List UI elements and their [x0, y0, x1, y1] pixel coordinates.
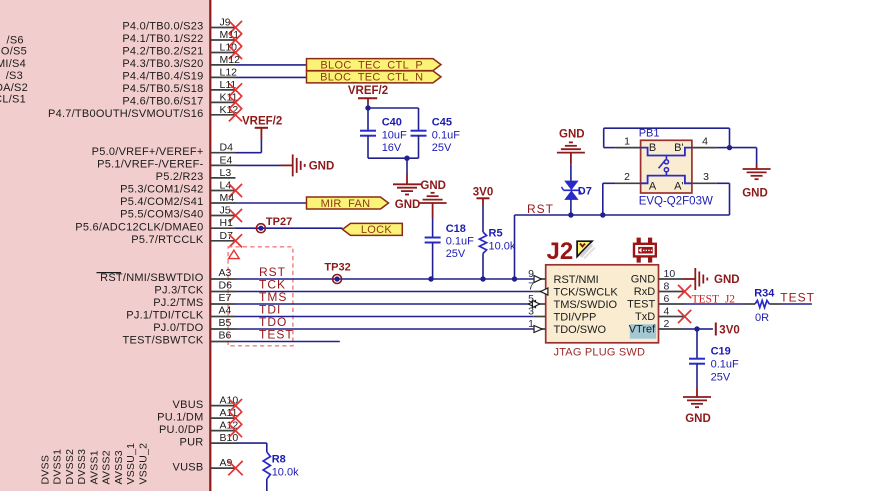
wire PB1 pin4 to GND — [717, 147, 730, 149]
svg-text:D4: D4 — [220, 142, 234, 154]
svg-text:P5.3/COM1/S42: P5.3/COM1/S42 — [120, 184, 203, 196]
svg-text:RxD: RxD — [634, 286, 655, 298]
svg-text:8: 8 — [664, 280, 670, 292]
ground symbol at E4 — [281, 164, 293, 166]
pin A10 stub — [210, 405, 235, 407]
svg-text:P5.5/COM3/S40: P5.5/COM3/S40 — [120, 209, 203, 221]
svg-text:P5.6/ADC12CLK/DMAE0: P5.6/ADC12CLK/DMAE0 — [75, 221, 203, 233]
svg-text:3V0: 3V0 — [719, 324, 739, 336]
svg-text:BLOC_TEC_CTL_P: BLOC_TEC_CTL_P — [320, 59, 423, 71]
pin A9 stub — [210, 467, 235, 469]
pin A4 stub (TDI) — [210, 316, 235, 318]
connector footprint icon — [637, 238, 641, 244]
no-connect X — [229, 412, 242, 425]
J2 pin 7 arrow — [541, 288, 548, 295]
svg-text:TCK/SWCLK: TCK/SWCLK — [554, 286, 619, 298]
svg-text:E7: E7 — [219, 292, 232, 304]
VTref highlight — [630, 324, 656, 339]
wire D7 to RST net — [570, 199, 572, 215]
svg-text:4: 4 — [664, 305, 670, 317]
svg-text:RST: RST — [527, 202, 554, 216]
svg-text:0R: 0R — [755, 312, 769, 324]
svg-text:10.0k: 10.0k — [272, 467, 299, 479]
svg-text:VSSU_2: VSSU_2 — [137, 443, 149, 485]
svg-text:A': A' — [674, 181, 683, 193]
pin L10 P4.2 stub — [210, 52, 235, 54]
wire H1 to LOCK flag — [236, 227, 343, 229]
svg-text:4: 4 — [702, 136, 708, 148]
resistor R5 — [482, 205, 484, 232]
svg-text:P5.2/R23: P5.2/R23 — [156, 171, 204, 183]
wire M4 to MIR_FAN — [236, 202, 307, 204]
no-connect X — [229, 399, 242, 412]
wire PB1 pin1 loop — [604, 147, 616, 149]
svg-text:A: A — [649, 181, 657, 193]
svg-text:L12: L12 — [220, 66, 238, 78]
J2 right pin 8 RxD — [659, 291, 684, 293]
svg-text:A3: A3 — [219, 267, 232, 279]
edit pencil icon — [577, 241, 592, 256]
wire E4 to GND — [236, 164, 281, 166]
J2 left pin 9 RST/NMI — [533, 278, 546, 280]
pin E4 P5.1 stub — [210, 164, 235, 166]
wire VREF/2 to caps — [367, 103, 369, 108]
svg-text:TEST: TEST — [780, 290, 815, 304]
pin J9 P4.0 stub — [210, 27, 235, 29]
resistor R8 — [263, 452, 270, 479]
pin B5 stub (TDO) — [210, 328, 235, 330]
pin J5 P5.5 stub — [210, 215, 235, 217]
svg-text:C18: C18 — [446, 223, 466, 235]
svg-text:J5: J5 — [220, 205, 231, 217]
svg-text:TEST: TEST — [627, 299, 655, 311]
power flag 3V0 at VTref — [715, 323, 717, 336]
IC U1 MSP430 body (partial, right edge) — [0, 0, 210, 491]
svg-text:J2: J2 — [547, 238, 574, 265]
svg-text:TxD: TxD — [635, 311, 655, 323]
capacitor C40 — [367, 108, 369, 131]
error triangle marker — [229, 250, 240, 258]
power flag VREF/2 at D4 — [236, 152, 262, 154]
svg-text:LOCK: LOCK — [361, 224, 393, 236]
svg-text:TEST/SBWTCK: TEST/SBWTCK — [123, 335, 204, 347]
J2 pin 5 double arrow — [528, 301, 535, 308]
svg-text:P5.1/VREF-/VEREF-: P5.1/VREF-/VEREF- — [97, 159, 203, 171]
svg-text:PJ.2/TMS: PJ.2/TMS — [153, 297, 203, 309]
pin D7 P5.7 stub — [210, 240, 235, 242]
wire P4.3 to BLOC_TEC_CTL_P — [236, 64, 307, 66]
svg-text:AVSS3: AVSS3 — [113, 450, 125, 484]
svg-text:P4.7/TB0OUTH/SVMOUT/S16: P4.7/TB0OUTH/SVMOUT/S16 — [48, 108, 204, 120]
svg-text:P4.0/TB0.0/S23: P4.0/TB0.0/S23 — [122, 21, 203, 33]
ground at J2 pin 10 — [684, 278, 696, 280]
svg-text:B': B' — [674, 142, 683, 154]
svg-text:0.1uF: 0.1uF — [446, 236, 474, 248]
svg-text:P4.1/TB0.1/S22: P4.1/TB0.1/S22 — [122, 33, 203, 45]
no-connect X on pin L11 — [229, 83, 242, 96]
svg-text:TMS/SWDIO: TMS/SWDIO — [554, 299, 618, 311]
svg-text:PJ.3/TCK: PJ.3/TCK — [154, 285, 203, 297]
net flag BLOC_TEC_CTL_P — [307, 59, 442, 71]
svg-text:TDO/SWO: TDO/SWO — [554, 324, 607, 336]
wire TDI row to J2 pin 3 — [236, 316, 534, 318]
svg-text:GND: GND — [559, 128, 585, 140]
svg-text:D7: D7 — [578, 185, 592, 197]
no-connect X on TxD — [678, 310, 691, 323]
svg-text:J9: J9 — [220, 17, 231, 29]
svg-text:/S3: /S3 — [6, 70, 23, 82]
svg-text:C40: C40 — [382, 117, 402, 129]
net flag LOCK — [343, 223, 403, 235]
no-connect X on pin M11 — [229, 33, 242, 46]
svg-text:P5.0/VREF+/VEREF+: P5.0/VREF+/VEREF+ — [92, 146, 204, 158]
svg-text:VBUS: VBUS — [173, 399, 204, 411]
svg-text:AVSS2: AVSS2 — [101, 450, 113, 484]
svg-text:P4.4/TB0.4/S19: P4.4/TB0.4/S19 — [122, 71, 203, 83]
svg-text:VUSB: VUSB — [173, 461, 204, 473]
svg-text:DVSS2: DVSS2 — [64, 449, 76, 485]
svg-text:GND: GND — [742, 188, 768, 200]
J2 left pin 3 TDI/VPP — [533, 316, 546, 318]
svg-text:B5: B5 — [219, 317, 232, 329]
svg-text:P5.7/RTCCLK: P5.7/RTCCLK — [131, 234, 204, 246]
svg-text:M4: M4 — [220, 192, 235, 204]
pin E7 stub (TMS) — [210, 303, 235, 305]
PB1 pin 1 stub — [616, 147, 641, 149]
svg-text:2: 2 — [624, 171, 630, 183]
dashed highlight box around JTAG nets — [228, 247, 293, 346]
svg-text:H1: H1 — [220, 217, 234, 229]
svg-text:B: B — [649, 142, 656, 154]
capacitor C45 — [418, 108, 420, 131]
wire TCK row to J2 pin 7 — [236, 291, 534, 293]
PB1 pin 2 stub — [616, 182, 641, 184]
no-connect X on pin J9 — [229, 21, 242, 34]
svg-text:P4.3/TB0.3/S20: P4.3/TB0.3/S20 — [122, 58, 203, 70]
svg-text:MIR_FAN: MIR_FAN — [321, 198, 371, 210]
svg-text:6: 6 — [664, 293, 670, 305]
ground at PB1 pin4 — [756, 164, 758, 169]
no-connect X on RxD — [678, 285, 691, 298]
svg-text:JTAG PLUG SWD: JTAG PLUG SWD — [554, 346, 646, 358]
svg-text:R34: R34 — [754, 287, 775, 299]
pin M12 P4.3 stub — [210, 64, 235, 66]
svg-text:TDI/VPP: TDI/VPP — [554, 311, 597, 323]
PB1 pin 4 stub — [692, 147, 717, 149]
svg-text:10uF: 10uF — [382, 130, 407, 142]
svg-text:PU.1/DM: PU.1/DM — [157, 411, 203, 423]
svg-text:VREF/2: VREF/2 — [348, 85, 388, 97]
svg-text:3: 3 — [703, 171, 709, 183]
wire TMS row to J2 pin 5 — [236, 303, 534, 305]
wire RST riser — [514, 215, 516, 279]
pin A3 stub (RST) — [210, 278, 235, 280]
J2 left pin 7 TCK/SWCLK — [533, 291, 546, 293]
svg-text:25V: 25V — [711, 371, 731, 383]
svg-text:C19: C19 — [711, 345, 731, 357]
pin A12 stub — [210, 430, 235, 432]
svg-text:AVSS1: AVSS1 — [88, 450, 100, 484]
svg-text:1: 1 — [624, 136, 630, 148]
svg-text:2: 2 — [664, 318, 670, 330]
svg-text:BLOC_TEC_CTL_N: BLOC_TEC_CTL_N — [320, 72, 423, 84]
svg-text:GND: GND — [420, 180, 446, 192]
svg-text:O/S5: O/S5 — [1, 46, 27, 58]
svg-text:25V: 25V — [432, 142, 452, 154]
J2 pin 1 arrow — [534, 326, 542, 333]
svg-text:EVQ-Q2F03W: EVQ-Q2F03W — [639, 196, 713, 208]
svg-text:DA/S2: DA/S2 — [0, 82, 28, 94]
svg-text:PJ.0/TDO: PJ.0/TDO — [153, 322, 203, 334]
no-connect X on A9 — [228, 461, 242, 475]
capacitor C19 — [696, 329, 698, 359]
svg-text:GND: GND — [714, 274, 740, 286]
wire bottom rail — [368, 157, 419, 159]
J2 right pin 4 TxD — [659, 316, 684, 318]
svg-text:B6: B6 — [219, 330, 232, 342]
test point TP32 on RST net — [333, 275, 342, 284]
pin H1 P5.6 stub — [210, 227, 235, 229]
no-connect X — [229, 424, 242, 437]
svg-text:0.1uF: 0.1uF — [711, 358, 739, 370]
svg-text:P4.5/TB0.5/S18: P4.5/TB0.5/S18 — [122, 83, 203, 95]
svg-text:0.1uF: 0.1uF — [432, 130, 460, 142]
svg-text:P4.6/TB0.6/S17: P4.6/TB0.6/S17 — [122, 96, 203, 108]
svg-text:10: 10 — [664, 268, 676, 280]
TVS diode D7 — [565, 181, 577, 189]
svg-text:10.0k: 10.0k — [489, 241, 516, 253]
pin L12 P4.4 stub — [210, 76, 235, 78]
pin L11 P4.5 stub — [210, 89, 235, 91]
pin D4 P5.0 stub — [210, 152, 235, 154]
ground symbol for C40/C45 — [406, 158, 408, 173]
svg-text:PJ.1/TDI/TCLK: PJ.1/TDI/TCLK — [126, 310, 204, 322]
svg-text:VTref: VTref — [629, 324, 656, 336]
svg-text:CL/S1: CL/S1 — [0, 94, 26, 106]
net flag MIR_FAN — [307, 197, 389, 209]
svg-text:GND: GND — [395, 199, 421, 211]
wire RST row to J2 pin 9 — [236, 278, 534, 280]
test point TP27 — [256, 224, 265, 233]
J2 left pin 1 TDO/SWO — [533, 328, 546, 330]
J2 right pin 2 VTref — [659, 328, 684, 330]
svg-text:GND: GND — [309, 161, 335, 173]
svg-text:3V0: 3V0 — [473, 187, 493, 199]
node: top rail junction — [368, 107, 419, 109]
pin M4 P5.4 stub — [210, 202, 235, 204]
svg-text:E4: E4 — [220, 154, 233, 166]
pin A11 stub — [210, 417, 235, 419]
svg-text:P5.4/COM2/S41: P5.4/COM2/S41 — [120, 196, 203, 208]
svg-text:MI/S4: MI/S4 — [0, 58, 26, 70]
PB1 switch symbol — [641, 148, 692, 156]
svg-text:GND: GND — [631, 274, 656, 286]
svg-text:/S6: /S6 — [7, 34, 24, 46]
PB1 pin 3 stub — [692, 182, 717, 184]
svg-text:DVSS3: DVSS3 — [76, 449, 88, 485]
wire VTref to 3V0 and C19 — [684, 328, 698, 330]
svg-text:R5: R5 — [489, 228, 503, 240]
svg-text:DVSS1: DVSS1 — [52, 449, 64, 485]
pin K11 P4.6 stub — [210, 101, 235, 103]
svg-text:L3: L3 — [220, 167, 232, 179]
svg-text:PU.0/DP: PU.0/DP — [159, 424, 204, 436]
ground below C19 — [696, 388, 698, 397]
svg-text:C45: C45 — [432, 117, 452, 129]
svg-text:9: 9 — [528, 268, 534, 280]
svg-text:PB1: PB1 — [639, 128, 660, 140]
wire P4.4 to BLOC_TEC_CTL_N — [236, 76, 307, 78]
svg-text:16V: 16V — [382, 142, 402, 154]
resistor R34 on TEST net — [684, 303, 744, 305]
J2 pin 9 arrow — [534, 276, 541, 283]
svg-text:D6: D6 — [219, 280, 233, 292]
pin L4 P5.3 stub — [210, 190, 235, 192]
svg-text:1: 1 — [528, 318, 534, 330]
wire RST to PB1 pin 2 — [571, 214, 603, 216]
pin L3 P5.2 stub — [210, 177, 235, 179]
pin M11 P4.1 stub — [210, 39, 235, 41]
svg-text:7: 7 — [528, 280, 534, 292]
no-connect X on pin K11 — [229, 96, 242, 109]
svg-text:TP32: TP32 — [324, 262, 350, 274]
pushbutton PB1 EVQ-Q2F03W — [641, 140, 692, 193]
capacitor C18 — [425, 237, 441, 239]
J2 left pin 5 TMS/SWDIO — [533, 303, 546, 305]
svg-text:VREF/2: VREF/2 — [242, 116, 282, 128]
pin K12 P4.7 stub — [210, 114, 235, 116]
wire TEST stub (open) — [236, 341, 340, 343]
pin D6 stub (TCK) — [210, 291, 235, 293]
connector J2 body JTAG PLUG SWD — [546, 265, 659, 343]
svg-text:RST/NMI/SBWTDIO: RST/NMI/SBWTDIO — [100, 272, 204, 284]
svg-text:P4.2/TB0.2/S21: P4.2/TB0.2/S21 — [122, 46, 203, 58]
svg-text:DVSS: DVSS — [39, 455, 51, 485]
wire TDO row to J2 pin 1 — [236, 328, 534, 330]
J2 right pin 10 GND — [659, 278, 684, 280]
pin B10 stub — [210, 442, 235, 444]
svg-text:GND: GND — [685, 413, 711, 425]
wire PB1 pin3 loop to RST — [717, 182, 730, 184]
svg-text:RST/NMI: RST/NMI — [554, 274, 599, 286]
J2 right pin 6 TEST — [659, 303, 684, 305]
svg-text:A4: A4 — [219, 305, 232, 317]
svg-text:PUR: PUR — [180, 436, 204, 448]
pin B6 stub (TEST) — [210, 341, 235, 343]
svg-text:25V: 25V — [446, 248, 466, 260]
net flag BLOC_TEC_CTL_N — [307, 71, 442, 83]
wire PUR to R8 — [236, 442, 267, 444]
no-connect X on pin L10 — [229, 46, 242, 59]
svg-text:VSSU_1: VSSU_1 — [125, 443, 137, 485]
svg-text:R8: R8 — [272, 454, 286, 466]
no-connect X on pin K12 — [229, 108, 242, 121]
svg-text:TP27: TP27 — [266, 216, 292, 228]
